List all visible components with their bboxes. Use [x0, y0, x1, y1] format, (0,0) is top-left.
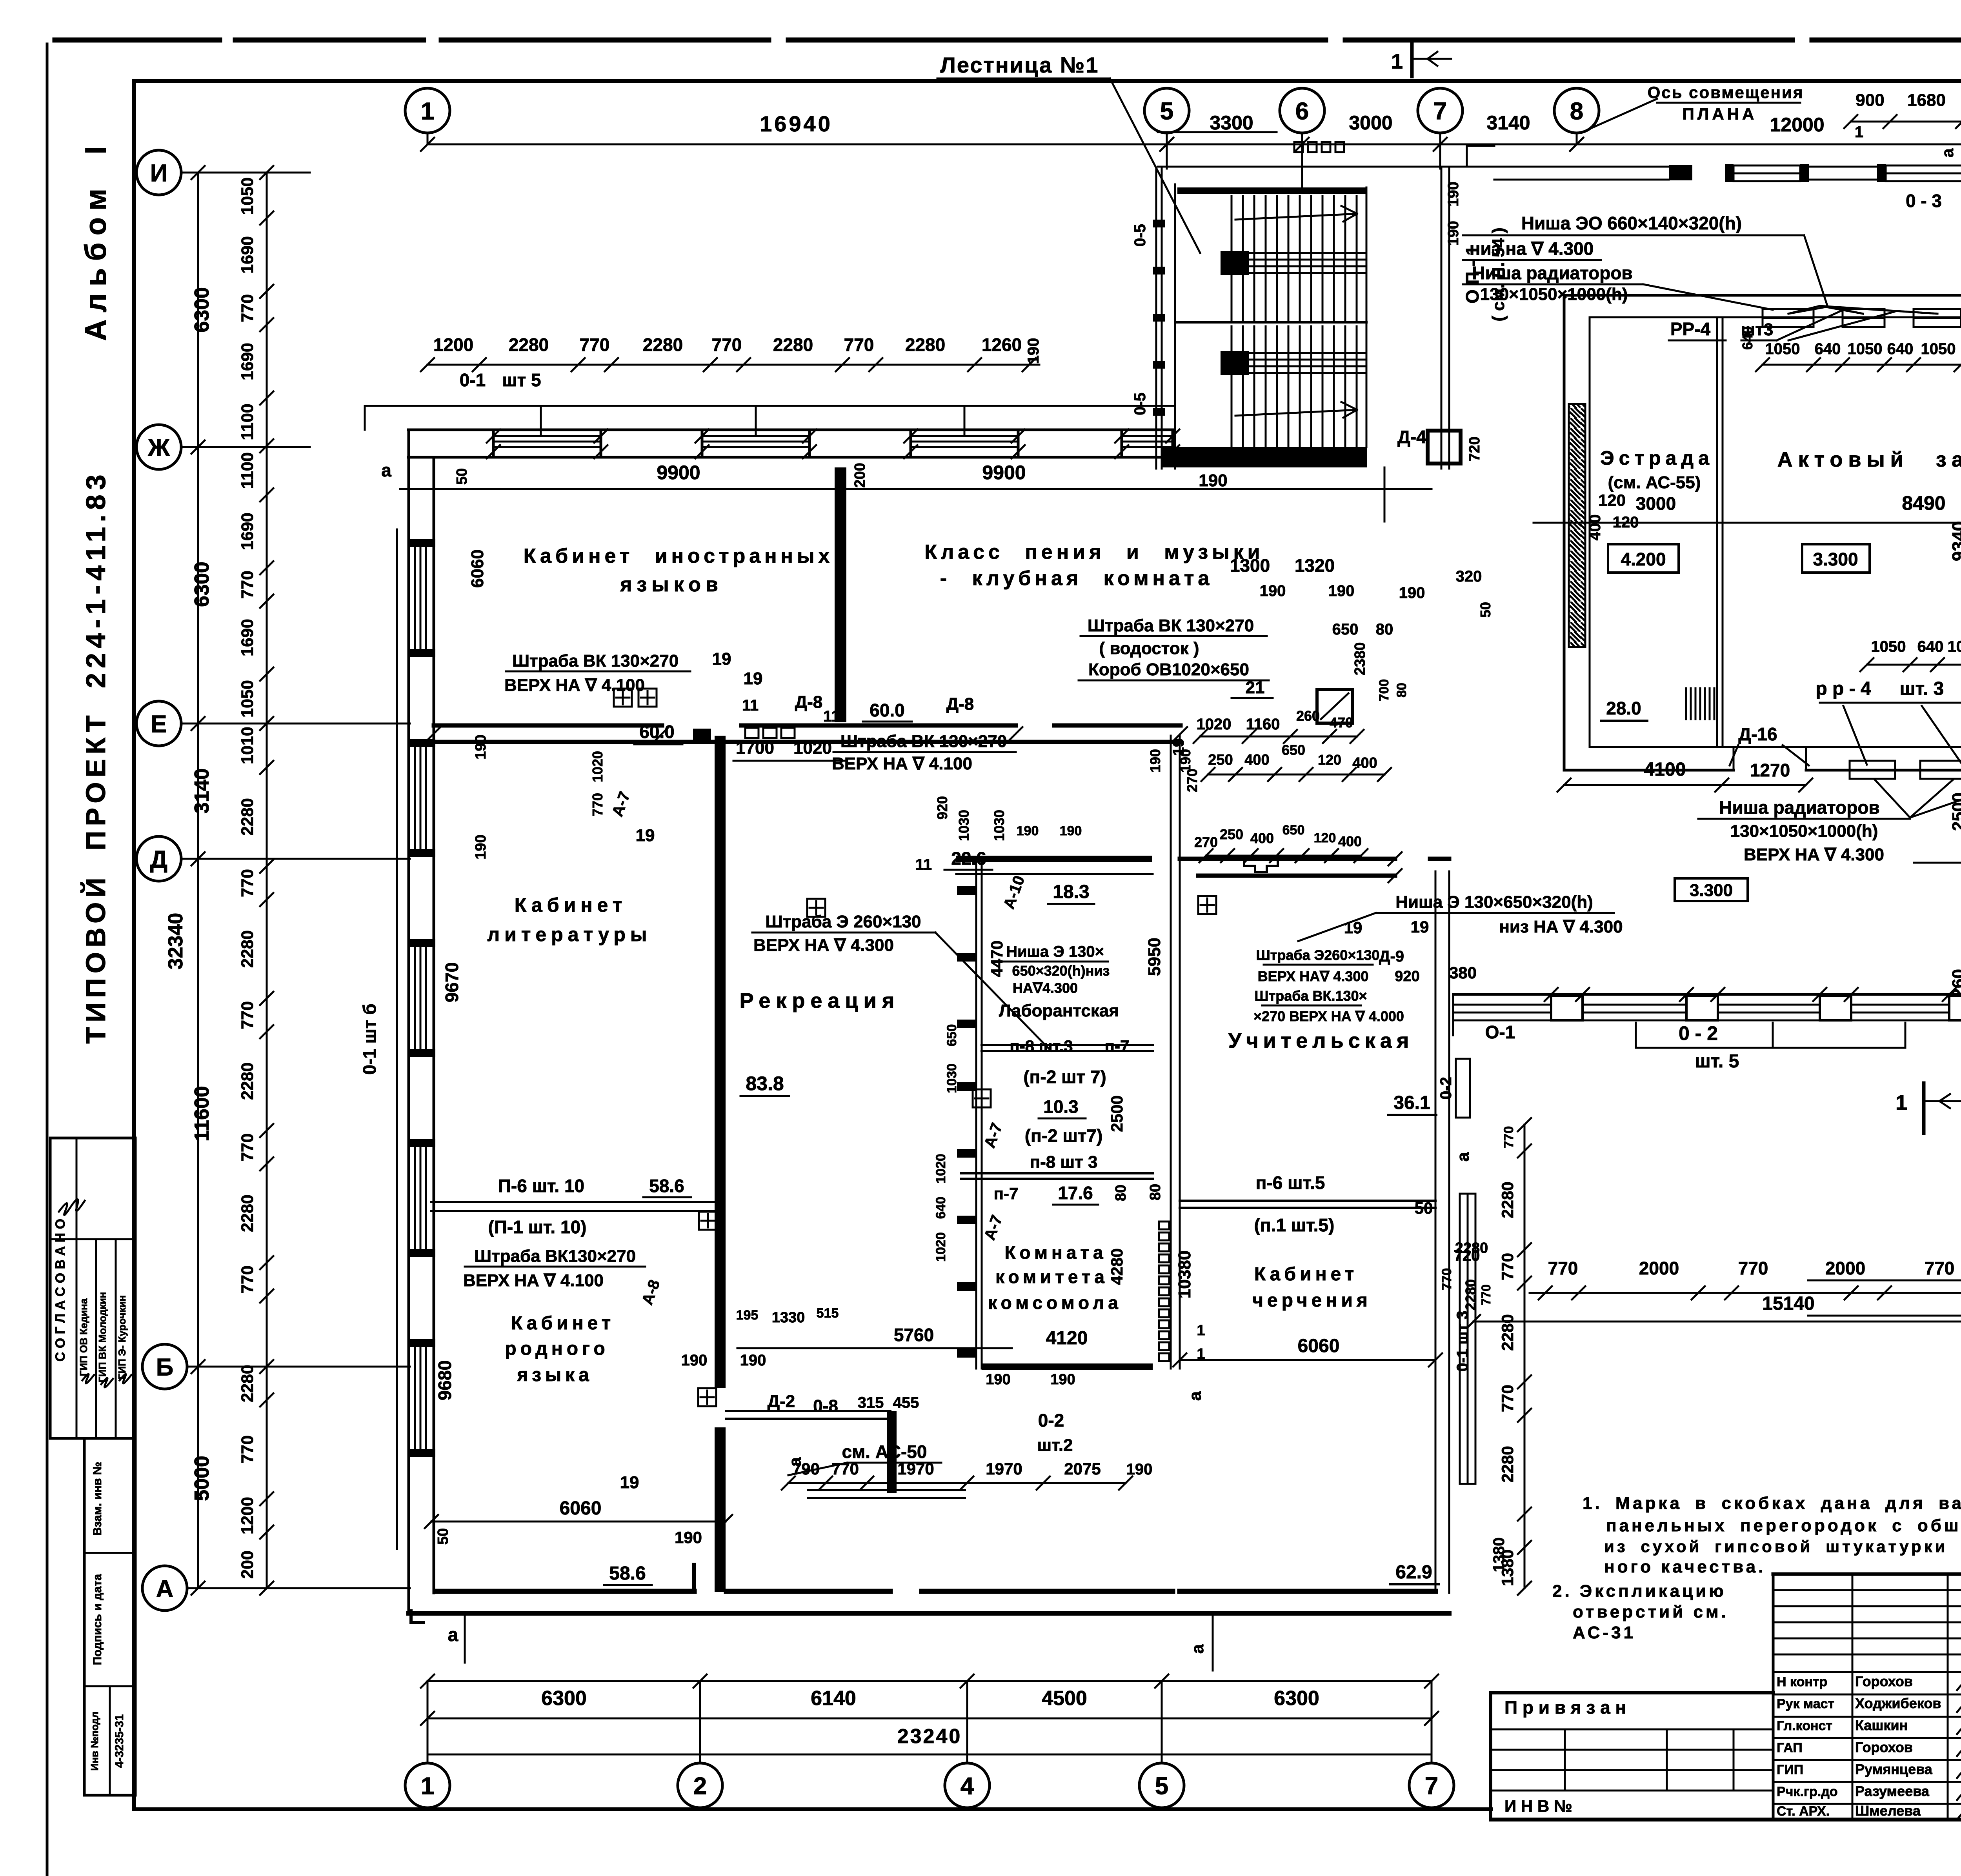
svg-text:11: 11 [823, 708, 840, 725]
svg-text:шт.2: шт.2 [1037, 1436, 1073, 1455]
dimension chain left detailed [266, 173, 268, 1588]
svg-text:1260: 1260 [982, 334, 1022, 355]
svg-text:А-10: А-10 [1000, 873, 1028, 911]
svg-text:920: 920 [934, 796, 950, 820]
center rooms west wall [975, 862, 977, 1369]
svg-text:Н контр: Н контр [1777, 1674, 1827, 1689]
axis circle A left [142, 1566, 187, 1611]
bottom wall of stair bay [1162, 447, 1367, 467]
west facade windows [414, 547, 416, 649]
east wall of uchitelskaya/chercheniya [1435, 871, 1437, 1593]
svg-text:400: 400 [1250, 830, 1274, 846]
svg-text:р р - 4: р р - 4 [1815, 678, 1871, 699]
svg-text:190: 190 [1445, 182, 1462, 206]
north facade of right wing [1449, 166, 1494, 168]
svg-text:Кабинет: Кабинет [515, 894, 627, 916]
svg-text:6060: 6060 [1298, 1336, 1340, 1356]
svg-text:9900: 9900 [657, 462, 700, 484]
svg-text:комсомола: комсомола [988, 1292, 1122, 1313]
svg-text:190: 190 [1050, 1371, 1075, 1388]
column axis circle 2 bottom [678, 1763, 722, 1808]
svg-text:2280: 2280 [773, 334, 813, 355]
svg-text:1030: 1030 [944, 1063, 959, 1093]
svg-text:11: 11 [915, 856, 932, 873]
sheet left page edge [46, 44, 49, 1876]
signatures [1957, 1673, 1961, 1692]
partition under laborantskaya [982, 1044, 1153, 1046]
svg-text:50: 50 [454, 468, 470, 485]
drain box on wall [1317, 689, 1352, 723]
svg-text:1030: 1030 [991, 810, 1007, 841]
svg-text:Штраба ВК130×270: Штраба ВК130×270 [474, 1247, 636, 1266]
svg-text:770: 770 [1498, 1253, 1517, 1280]
svg-text:190: 190 [1445, 221, 1462, 245]
svg-text:10.3: 10.3 [1043, 1096, 1079, 1117]
east wall of literature room [715, 736, 726, 1388]
stair right corridor wall [1441, 167, 1443, 469]
svg-text:1320: 1320 [1295, 555, 1335, 576]
svg-text:Штраба ВК 130×270: Штраба ВК 130×270 [1088, 616, 1254, 635]
svg-text:шт. 3: шт. 3 [1900, 678, 1944, 699]
svg-text:черчения: черчения [1252, 1290, 1372, 1311]
svg-text:1050: 1050 [1848, 340, 1883, 358]
svg-text:1020: 1020 [1197, 716, 1232, 733]
svg-text:Учительская: Учительская [1228, 1029, 1414, 1053]
column axis circle 6 top [1280, 88, 1324, 133]
svg-text:10380: 10380 [1175, 1251, 1194, 1298]
svg-text:770: 770 [844, 334, 874, 355]
svg-text:320: 320 [1456, 568, 1482, 585]
svg-text:19: 19 [620, 1473, 639, 1492]
svg-text:А-8: А-8 [639, 1278, 663, 1307]
column axis circle 4 bottom [945, 1763, 990, 1808]
svg-text:Штраба ВК 130×270: Штраба ВК 130×270 [840, 732, 1007, 751]
west facade parapet line [396, 529, 398, 1549]
svg-text:1050: 1050 [1921, 340, 1956, 358]
svg-text:Горохов: Горохов [1855, 1739, 1913, 1755]
svg-text:1700: 1700 [736, 738, 774, 758]
svg-text:ВЕРХ НА ∇ 4.100: ВЕРХ НА ∇ 4.100 [463, 1271, 604, 1290]
svg-text:120: 120 [1598, 491, 1626, 509]
svg-text:650: 650 [944, 1024, 959, 1047]
svg-text:1970: 1970 [897, 1460, 934, 1478]
svg-text:Ниша радиаторов: Ниша радиаторов [1472, 263, 1632, 283]
svg-text:270: 270 [1194, 834, 1218, 850]
svg-text:см. АС-50: см. АС-50 [842, 1442, 927, 1462]
svg-text:ного качества.: ного качества. [1604, 1557, 1766, 1576]
svg-text:ВЕРХ НА ∇ 4.300: ВЕРХ НА ∇ 4.300 [753, 936, 894, 955]
svg-text:1380: 1380 [1490, 1538, 1508, 1572]
svg-text:4120: 4120 [1046, 1328, 1088, 1349]
wall between foreign-lang and singing rooms [835, 467, 846, 722]
svg-text:2280: 2280 [1498, 1446, 1517, 1482]
svg-text:ВЕРХ НА ∇ 4.300: ВЕРХ НА ∇ 4.300 [1744, 845, 1884, 864]
svg-text:Кабинет: Кабинет [511, 1313, 615, 1334]
svg-text:Короб ОВ1020×650: Короб ОВ1020×650 [1088, 660, 1249, 679]
svg-text:58.6: 58.6 [649, 1176, 684, 1196]
svg-text:195: 195 [736, 1308, 759, 1323]
svg-text:комитета: комитета [995, 1267, 1108, 1287]
svg-text:640: 640 [933, 1197, 948, 1219]
axis circle Zh left [136, 425, 181, 469]
svg-text:Д-8: Д-8 [946, 694, 974, 714]
P-6 line under uchitelskaya [1180, 1200, 1435, 1202]
axis lines left [181, 172, 310, 174]
svg-text:0 - 2: 0 - 2 [1679, 1022, 1718, 1044]
svg-text:650: 650 [1282, 823, 1305, 838]
svg-text:9670: 9670 [442, 962, 462, 1002]
svg-text:2280: 2280 [905, 334, 945, 355]
svg-text:Штраба ВК.130×: Штраба ВК.130× [1254, 988, 1367, 1004]
svg-text:190: 190 [1260, 582, 1286, 600]
column axis circle 1 top [405, 88, 450, 133]
svg-text:Кабинет: Кабинет [1254, 1264, 1358, 1285]
svg-text:Д-9: Д-9 [1379, 948, 1404, 965]
svg-text:0-1: 0-1 [460, 370, 486, 390]
column axis circle 7 top [1418, 88, 1463, 133]
svg-text:0-2: 0-2 [1437, 1077, 1455, 1100]
svg-text:Лаборантская: Лаборантская [999, 1001, 1119, 1020]
svg-text:0-1 шт 3: 0-1 шт 3 [1454, 1311, 1471, 1371]
recreation south partitions [726, 1410, 890, 1412]
svg-text:4280: 4280 [1108, 1248, 1126, 1285]
svg-text:Актовый зал: Актовый зал [1777, 448, 1961, 471]
sidebar stamp column (vzam inv / podpis / inv no) [84, 1438, 135, 1795]
svg-text:770: 770 [589, 793, 606, 816]
svg-text:И Н В №: И Н В № [1504, 1797, 1572, 1815]
svg-text:2280: 2280 [509, 334, 549, 355]
bottom wall of komsomol room [982, 1363, 1153, 1370]
svg-text:п-7: п-7 [994, 1184, 1019, 1203]
svg-text:22.6: 22.6 [951, 848, 986, 869]
column axis circle 7 bottom [1409, 1763, 1454, 1808]
svg-text:Штраба Э 260×130: Штраба Э 260×130 [765, 912, 921, 931]
svg-text:а: а [381, 460, 391, 480]
svg-text:1: 1 [1855, 124, 1863, 141]
svg-text:П р и в я з а н: П р и в я з а н [1504, 1697, 1626, 1718]
svg-text:ГАП: ГАП [1777, 1740, 1803, 1755]
svg-text:19: 19 [712, 649, 731, 669]
svg-text:640: 640 [1739, 326, 1755, 350]
svg-text:17.6: 17.6 [1058, 1183, 1093, 1203]
svg-text:190: 190 [1060, 823, 1082, 838]
svg-text:а: а [1453, 1152, 1473, 1162]
svg-text:А-7: А-7 [981, 1213, 1006, 1243]
svg-text:- клубная комната: - клубная комната [940, 567, 1213, 590]
svg-text:190: 190 [1399, 584, 1425, 602]
svg-text:19: 19 [1411, 918, 1429, 936]
svg-text:0-5: 0-5 [1131, 393, 1149, 415]
svg-text:1050: 1050 [1765, 340, 1800, 358]
svg-text:455: 455 [893, 1394, 919, 1411]
svg-text:родного: родного [505, 1338, 609, 1359]
svg-text:770: 770 [1498, 1385, 1517, 1412]
svg-text:650: 650 [1282, 742, 1305, 758]
svg-text:6060: 6060 [560, 1498, 602, 1519]
svg-text:Кашкин: Кашкин [1855, 1717, 1908, 1733]
south wall under chercheniya [1180, 1589, 1435, 1594]
svg-text:190: 190 [1177, 749, 1193, 773]
svg-text:РР-4: РР-4 [1670, 319, 1711, 339]
svg-text:2280: 2280 [1498, 1182, 1517, 1218]
svg-text:770: 770 [1548, 1258, 1578, 1278]
door units with cross symbols [614, 689, 632, 707]
svg-text:литературы: литературы [487, 923, 651, 945]
svg-text:21: 21 [1246, 678, 1265, 697]
svg-text:Класс пения и музыки: Класс пения и музыки [924, 541, 1264, 564]
svg-text:отверстий см.: отверстий см. [1573, 1602, 1729, 1622]
svg-text:62.9: 62.9 [1395, 1562, 1432, 1583]
svg-text:Штраба ВК 130×270: Штраба ВК 130×270 [512, 651, 679, 671]
svg-text:920: 920 [1395, 968, 1419, 985]
svg-text:700: 700 [1377, 679, 1392, 702]
svg-text:0-8: 0-8 [813, 1396, 838, 1416]
svg-text:770: 770 [1479, 1284, 1493, 1305]
svg-text:1. Марка в скобках дана для ва: 1. Марка в скобках дана для варианта [1583, 1494, 1961, 1513]
svg-text:2075: 2075 [1064, 1460, 1101, 1478]
svg-text:а: а [1938, 148, 1957, 158]
svg-text:0 - 3: 0 - 3 [1906, 191, 1942, 211]
P-6 wall line between literature and rodnogo [431, 1201, 715, 1203]
svg-text:190: 190 [1025, 338, 1042, 364]
svg-text:1020: 1020 [793, 738, 832, 758]
svg-text:1160: 1160 [1246, 716, 1280, 733]
axis circle I left [136, 150, 181, 195]
svg-text:2500: 2500 [1959, 212, 1961, 251]
svg-text:(п-2 шт7): (п-2 шт7) [1025, 1125, 1103, 1146]
corridor spine wall [1170, 736, 1172, 1369]
svg-text:1200: 1200 [433, 334, 473, 355]
svg-text:83.8: 83.8 [746, 1073, 784, 1094]
svg-text:А-7: А-7 [981, 1121, 1006, 1151]
svg-text:Рчк.гр.до: Рчк.гр.до [1777, 1784, 1838, 1799]
hatched panel strip [1159, 1222, 1169, 1229]
svg-text:а: а [448, 1625, 458, 1645]
svg-text:770: 770 [1439, 1268, 1454, 1291]
svg-text:АС-31: АС-31 [1573, 1623, 1636, 1642]
svg-text:низ на ∇ 4.300: низ на ∇ 4.300 [1470, 238, 1594, 259]
north wall of classroom block with windows [365, 405, 1175, 407]
svg-text:2500: 2500 [1949, 793, 1961, 831]
bottom dimension line spans [427, 1680, 1432, 1682]
svg-text:ГИП: ГИП [1777, 1762, 1803, 1777]
column axis circle 5 bottom [1139, 1763, 1184, 1808]
svg-text:5950: 5950 [1145, 938, 1164, 976]
svg-text:Ниша Э 130×650×320(h): Ниша Э 130×650×320(h) [1395, 893, 1593, 912]
svg-text:3000: 3000 [1636, 493, 1676, 514]
svg-text:Ниша ЭО 660×140×320(h): Ниша ЭО 660×140×320(h) [1521, 213, 1742, 233]
svg-text:2280: 2280 [1455, 1240, 1488, 1256]
svg-text:4100: 4100 [1644, 759, 1686, 780]
center column rooms: top wall [956, 856, 1152, 862]
level boxes [1608, 544, 1679, 573]
svg-text:п-6 шт.5: п-6 шт.5 [1256, 1172, 1325, 1193]
svg-text:2280: 2280 [1463, 1279, 1479, 1311]
svg-text:1020: 1020 [933, 1154, 948, 1183]
radiator niches top [1763, 309, 1814, 327]
svg-text:шт. 5: шт. 5 [1695, 1051, 1739, 1072]
inner drawing frame [134, 79, 1961, 83]
svg-text:15140: 15140 [1762, 1293, 1814, 1314]
svg-text:0-2: 0-2 [1038, 1410, 1064, 1431]
svg-text:80: 80 [1394, 683, 1409, 698]
svg-text:Д-4: Д-4 [1397, 427, 1426, 447]
svg-text:ВЕРХ НА ∇ 4.100: ВЕРХ НА ∇ 4.100 [832, 754, 972, 773]
stair treads [1231, 196, 1233, 321]
svg-text:2280: 2280 [643, 334, 683, 355]
svg-text:250: 250 [1208, 752, 1233, 768]
svg-text:9680: 9680 [435, 1360, 455, 1400]
svg-text:Штраба Э260×130: Штраба Э260×130 [1256, 947, 1380, 963]
svg-text:640: 640 [1887, 340, 1914, 358]
svg-text:9900: 9900 [982, 462, 1026, 484]
3.300 box lower [1675, 878, 1748, 901]
svg-text:1030: 1030 [956, 810, 972, 841]
top wall of uchitelskaya [1180, 857, 1395, 861]
svg-text:2000: 2000 [1639, 1258, 1679, 1278]
svg-text:Ниша радиаторов: Ниша радиаторов [1719, 797, 1879, 818]
svg-text:шт 5: шт 5 [502, 370, 541, 390]
svg-text:8490: 8490 [1902, 492, 1945, 514]
svg-text:Румянцева: Румянцева [1855, 1761, 1933, 1777]
top dimension line 16940 etc [427, 144, 1961, 145]
svg-text:3.300: 3.300 [1813, 549, 1858, 569]
svg-text:190: 190 [473, 734, 489, 759]
svg-text:650×320(h)низ: 650×320(h)низ [1012, 963, 1110, 979]
svg-text:1050: 1050 [1871, 638, 1906, 655]
svg-text:190: 190 [681, 1352, 708, 1369]
small empty grid top [1773, 1589, 1961, 1591]
svg-text:(П-1 шт. 10): (П-1 шт. 10) [488, 1217, 587, 1237]
svg-text:120: 120 [1613, 514, 1639, 531]
stage divider [1716, 317, 1718, 747]
niche leader fan top [1788, 306, 1820, 314]
partition 2 [961, 1172, 1153, 1174]
svg-text:770: 770 [1501, 1126, 1516, 1149]
svg-text:языков: языков [620, 573, 723, 596]
svg-text:1020: 1020 [589, 751, 606, 782]
axis circle D left [136, 836, 181, 881]
sidebar approval table [50, 1138, 135, 1438]
svg-text:120: 120 [1318, 752, 1341, 768]
svg-text:2380: 2380 [1352, 642, 1368, 676]
svg-text:190: 190 [1199, 471, 1227, 490]
svg-text:400: 400 [1338, 833, 1362, 849]
privyazan block [1491, 1691, 1773, 1694]
svg-text:770: 770 [1925, 1258, 1955, 1278]
column axis circle 1 bottom [405, 1763, 450, 1808]
svg-text:Разумеева: Разумеева [1855, 1783, 1930, 1799]
axis circle B left [142, 1344, 187, 1389]
svg-text:0-5: 0-5 [1131, 224, 1149, 247]
svg-text:190: 190 [740, 1352, 766, 1369]
svg-text:1330: 1330 [772, 1309, 805, 1326]
top right dim row 900 1680 770 1680 [1851, 121, 1961, 123]
svg-text:а: а [1186, 1391, 1205, 1401]
svg-text:1: 1 [1197, 1322, 1205, 1339]
window dim row above north wall [427, 364, 1039, 366]
svg-text:50: 50 [1477, 602, 1493, 618]
svg-text:Гл.конст: Гл.конст [1777, 1718, 1832, 1733]
svg-text:190: 190 [473, 834, 489, 859]
svg-text:6060: 6060 [468, 549, 487, 588]
svg-text:130×1050×1000(h): 130×1050×1000(h) [1730, 822, 1878, 841]
svg-text:П-6 шт. 10: П-6 шт. 10 [498, 1176, 584, 1196]
piano hatch block [1685, 688, 1687, 719]
svg-text:19: 19 [636, 826, 655, 845]
column axis circle 8 top [1554, 88, 1599, 133]
svg-text:Ниша Э 130×: Ниша Э 130× [1006, 943, 1104, 960]
svg-text:80: 80 [1376, 621, 1393, 638]
svg-text:( водосток ): ( водосток ) [1099, 639, 1199, 658]
svg-text:панельных перегородок с обшивк: панельных перегородок с обшивкой [1606, 1516, 1961, 1535]
stair outer walls [1155, 169, 1157, 469]
svg-text:640: 640 [1917, 638, 1944, 655]
svg-text:720: 720 [1466, 436, 1483, 461]
svg-text:28.0: 28.0 [1606, 698, 1641, 718]
svg-text:650: 650 [1332, 621, 1359, 638]
sidebar signature squiggles [59, 1199, 85, 1215]
svg-text:ВЕРХ НА∇ 4.300: ВЕРХ НА∇ 4.300 [1258, 968, 1369, 984]
svg-text:Горохов: Горохов [1855, 1673, 1913, 1689]
svg-text:60.0: 60.0 [870, 700, 905, 720]
stair arrows [1235, 214, 1357, 220]
svg-text:низ НА ∇ 4.300: низ НА ∇ 4.300 [1499, 917, 1623, 936]
svg-text:0-1 шт б: 0-1 шт б [359, 1003, 380, 1074]
svg-text:5760: 5760 [894, 1325, 934, 1345]
svg-text:Д-16: Д-16 [1738, 724, 1777, 744]
svg-text:1: 1 [1391, 50, 1403, 73]
svg-text:400: 400 [1244, 752, 1269, 768]
axis circle E left [136, 701, 181, 746]
svg-text:НА∇4.300: НА∇4.300 [1013, 980, 1078, 996]
svg-text:770: 770 [1738, 1258, 1768, 1278]
svg-text:Эстрада: Эстрада [1600, 447, 1714, 469]
svg-text:2. Экспликацию: 2. Экспликацию [1552, 1582, 1726, 1601]
svg-text:Кабинет иностранных: Кабинет иностранных [524, 545, 834, 567]
svg-text:380: 380 [1449, 963, 1477, 982]
west facade inner line [433, 457, 435, 1593]
svg-text:60.0: 60.0 [639, 722, 675, 742]
svg-text:4470: 4470 [988, 940, 1006, 977]
hall outer walls [1564, 294, 1961, 297]
svg-text:а: а [786, 1457, 805, 1467]
svg-text:400: 400 [1586, 514, 1604, 541]
window in east wall [1460, 1194, 1475, 1484]
stair mid divider [1177, 321, 1366, 324]
svg-text:190: 190 [1017, 823, 1039, 838]
corridor window band south [1453, 993, 1961, 996]
svg-text:770: 770 [580, 334, 610, 355]
svg-text:Лестница №1: Лестница №1 [940, 53, 1099, 77]
svg-text:120: 120 [1314, 831, 1336, 845]
svg-text:50: 50 [435, 1528, 451, 1545]
radiator niches bottom [1850, 761, 1895, 779]
svg-text:18.3: 18.3 [1053, 882, 1089, 902]
svg-text:4.200: 4.200 [1621, 549, 1666, 569]
svg-text:Комната: Комната [1004, 1242, 1107, 1263]
svg-text:(см. АС-55): (см. АС-55) [1608, 473, 1701, 492]
title block bottom edge [1489, 1809, 1492, 1820]
svg-text:50: 50 [1415, 1199, 1433, 1217]
svg-text:(п.1 шт.5): (п.1 шт.5) [1254, 1215, 1335, 1235]
dimension chain left overall [197, 173, 199, 1588]
svg-text:58.6: 58.6 [609, 1563, 646, 1584]
band left end wall [1452, 994, 1454, 1035]
svg-text:200: 200 [852, 463, 868, 487]
hall left wall hatch [1569, 404, 1585, 647]
svg-text:190: 190 [986, 1371, 1010, 1388]
